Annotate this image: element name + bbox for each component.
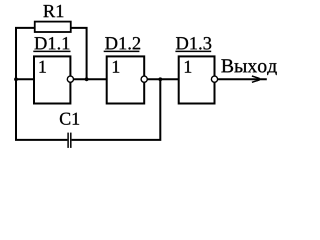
- resistor R1 body: [35, 22, 71, 32]
- wire: bottom wire from capacitor right plate rising to node B: [72, 79, 161, 140]
- wire: output wire from D1.3: [215, 78, 267, 80]
- label D1.3: [176, 37, 211, 50]
- label D1.2: [105, 37, 140, 50]
- junction dot at D1.1 input on left bus: [14, 77, 18, 81]
- junction dot node A (R1 feedback to D1.1 output): [85, 77, 89, 81]
- inverter D1.2 body: [107, 56, 145, 103]
- label R1: [43, 5, 63, 17]
- wire: D1.1 output to D1.2 input: [70, 78, 106, 80]
- pin label 1 (D1.2): [113, 61, 119, 73]
- inverter D1.3 body: [179, 56, 215, 103]
- inverter D1.1 body: [34, 56, 70, 103]
- junction dot node B (C1 branch at D1.3 input): [158, 77, 162, 81]
- capacitor C1 right plate: [70, 133, 72, 148]
- capacitor C1 left plate: [67, 133, 69, 148]
- wire: input wire of D1.1: [16, 78, 34, 80]
- wire: D1.2 output to D1.3 input: [144, 78, 179, 80]
- underline of label D1.2: [104, 50, 140, 52]
- underline of label D1.3: [175, 50, 211, 52]
- pin label 1 (D1.3): [185, 61, 191, 73]
- inversion bubble at D1.3 output: [211, 76, 217, 82]
- pin label 1 (D1.1): [40, 61, 46, 73]
- wire: resistor R1 right lead down to node A: [71, 28, 87, 79]
- inversion bubble at D1.2 output: [141, 76, 147, 82]
- label C1: [60, 113, 79, 125]
- output arrow head: [257, 77, 262, 82]
- label Выход (output): [221, 59, 276, 75]
- wire: left vertical bus from R1 lead down to bottom wire, to capacitor left plate: [16, 28, 67, 140]
- underline of label D1.1: [33, 50, 70, 52]
- label D1.1: [35, 37, 70, 49]
- inversion bubble at D1.1 output: [67, 76, 73, 82]
